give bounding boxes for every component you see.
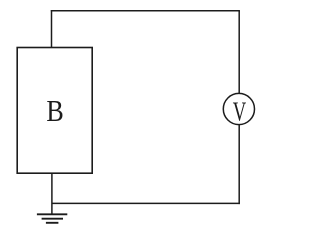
wire from voltmeter bottom down to bottom rail: [238, 125, 240, 204]
wire from battery B bottom terminal down to ground: [51, 173, 53, 214]
battery B rectangle: [17, 48, 92, 174]
voltmeter V1 circle: [223, 93, 254, 124]
wire from battery B top terminal up to top rail: [51, 10, 53, 48]
svg-text:B: B: [46, 95, 63, 128]
wire top horizontal rail: [51, 10, 240, 12]
wire bottom horizontal rail: [52, 202, 240, 204]
wire right vertical down to voltmeter top: [238, 11, 240, 94]
svg-text:V: V: [233, 97, 246, 127]
ground: [37, 214, 67, 223]
